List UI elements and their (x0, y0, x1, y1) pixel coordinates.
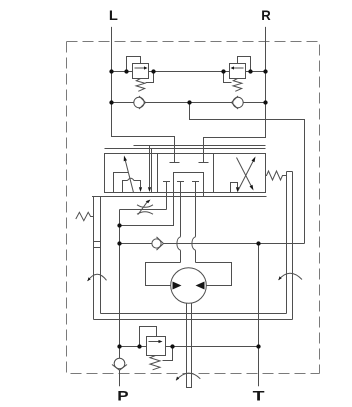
svg-text:P: P (117, 388, 128, 404)
svg-text:R: R (261, 7, 271, 23)
svg-text:T: T (253, 388, 266, 404)
svg-text:L: L (109, 7, 118, 23)
